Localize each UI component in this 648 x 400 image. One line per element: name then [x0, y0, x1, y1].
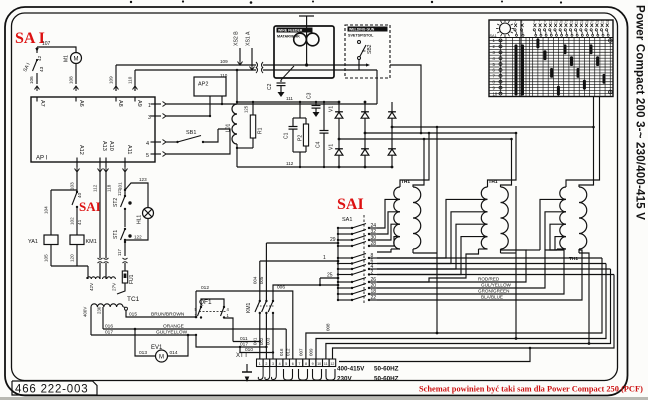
svg-text:102: 102 [70, 217, 75, 225]
svg-text:TH1: TH1 [569, 256, 578, 262]
motor M1 [71, 53, 82, 64]
svg-text:110: 110 [128, 76, 133, 84]
secondary drop TH2 [501, 252, 517, 254]
wire AP1 pin3 [166, 115, 210, 117]
wire 109 horizontal [116, 64, 256, 66]
wire 110 drop from A9 [134, 70, 136, 91]
svg-text:008: 008 [326, 323, 331, 331]
svg-text:YA1: YA1 [28, 239, 38, 245]
svg-text:50-60HZ: 50-60HZ [374, 376, 399, 383]
svg-text:R1: R1 [258, 127, 264, 134]
svg-text:230V: 230V [337, 376, 353, 383]
transformer TH1 no2 [481, 187, 487, 249]
tap wires TH3 [540, 199, 566, 250]
svg-text:C4: C4 [316, 141, 322, 148]
switch bank SA1 main [363, 215, 365, 303]
svg-text:016: 016 [105, 324, 113, 330]
svg-text:TC1: TC1 [127, 296, 140, 303]
svg-text:ST1: ST1 [113, 230, 119, 239]
svg-text:M: M [159, 355, 164, 361]
lamp HL1 [143, 208, 154, 219]
svg-text:001: 001 [253, 337, 258, 345]
wire 107 [37, 47, 76, 53]
svg-text:FU1: FU1 [129, 274, 135, 284]
return wire d [333, 275, 615, 360]
svg-text:50-60HZ: 50-60HZ [374, 366, 399, 373]
breaker QF1 [195, 291, 197, 317]
wire 113 down [105, 172, 107, 258]
wire ROD/RED [377, 250, 526, 282]
svg-text:230: 230 [97, 306, 102, 314]
svg-text:41: 41 [77, 219, 83, 225]
svg-text:17: 17 [565, 20, 569, 24]
gun return wire [376, 70, 378, 104]
svg-text:112: 112 [93, 184, 98, 192]
svg-text:5: 5 [146, 153, 149, 159]
secondary drop TH1 [413, 252, 437, 254]
svg-text:016: 016 [279, 348, 284, 356]
riser TH1 a [413, 139, 424, 187]
AP1 bottom pins [76, 162, 78, 167]
svg-text:014: 014 [170, 350, 178, 356]
svg-text:L01: L01 [226, 123, 232, 132]
svg-text:110: 110 [220, 73, 228, 78]
svg-text:SB1: SB1 [186, 130, 196, 136]
svg-text:29: 29 [596, 20, 600, 24]
svg-text:005: 005 [259, 276, 264, 284]
transformer TC1 primary [91, 304, 123, 307]
switch SB2 [358, 41, 361, 44]
svg-text:012: 012 [201, 285, 209, 291]
svg-text:25: 25 [585, 20, 589, 24]
svg-text:27: 27 [590, 20, 594, 24]
feed wire 29 [266, 242, 338, 244]
svg-text:006: 006 [277, 285, 285, 291]
svg-text:SAI: SAI [337, 196, 364, 213]
transformer TH1 no1 [394, 187, 400, 249]
svg-text:A11: A11 [126, 145, 132, 154]
wire 123 lamp top [125, 183, 146, 190]
svg-text:TH1: TH1 [401, 179, 410, 185]
switch SA1 aux [76, 191, 78, 193]
svg-text:KM1: KM1 [86, 239, 97, 245]
svg-text:HL1: HL1 [137, 215, 143, 224]
svg-text:6: 6 [292, 362, 294, 366]
svg-text:21: 21 [575, 20, 579, 24]
wire AP1 pin1 [166, 103, 222, 105]
svg-text:105: 105 [44, 254, 49, 262]
svg-text:V1: V1 [329, 144, 335, 150]
svg-text:10: 10 [493, 91, 498, 96]
wire 103 [76, 172, 78, 192]
control board AP1 [31, 97, 155, 162]
terminal 12 side wire [339, 348, 530, 362]
top edge specks [130, 1, 132, 3]
svg-text:3: 3 [272, 362, 274, 366]
gun wire to bus [390, 65, 421, 133]
welding gun box dashed [345, 25, 390, 78]
wire 016 ORANGE [103, 328, 286, 330]
fan motor EV1 [135, 329, 156, 356]
svg-text:Schemat powinien być taki sam: Schemat powinien być taki sam dla Power … [419, 385, 643, 394]
svg-text:109: 109 [220, 59, 228, 64]
svg-text:BLA/BLUE: BLA/BLUE [481, 295, 503, 300]
svg-text:13: 13 [554, 20, 558, 24]
svg-text:A13: A13 [101, 141, 107, 151]
wire GRON/GREEN [377, 250, 564, 294]
wire AP1 pin5 loop [166, 129, 230, 154]
jumper links [284, 369, 293, 380]
svg-text:11: 11 [324, 362, 328, 366]
svg-text:103: 103 [70, 182, 75, 190]
AP1 pin stubs [36, 97, 38, 102]
AP1 right pins [155, 103, 161, 105]
svg-text:31: 31 [601, 20, 605, 24]
tap wires TH2 [377, 199, 488, 258]
riser TH3 b [566, 97, 600, 188]
wire BLA/BLUE [377, 250, 582, 300]
return wire b [316, 264, 606, 360]
svg-text:SVETSPISTOL: SVETSPISTOL [348, 34, 374, 38]
svg-text:C2: C2 [267, 83, 273, 90]
svg-text:V1: V1 [329, 106, 335, 112]
svg-text:112: 112 [286, 161, 294, 166]
svg-text:015: 015 [129, 312, 137, 318]
svg-text:12: 12 [330, 362, 334, 366]
svg-text:29: 29 [330, 237, 336, 243]
svg-text:466 222-003: 466 222-003 [15, 384, 88, 396]
wire feeder box [274, 26, 334, 78]
svg-text:106: 106 [29, 76, 34, 84]
svg-text:1: 1 [148, 103, 151, 109]
return feeds top [377, 257, 602, 259]
svg-text:117: 117 [117, 249, 122, 256]
svg-text:121: 121 [117, 188, 122, 196]
svg-text:ST2: ST2 [113, 198, 119, 207]
svg-text:A8: A8 [117, 100, 123, 107]
contactor coil KM1 [70, 235, 84, 245]
svg-text:8: 8 [305, 362, 307, 366]
svg-text:007: 007 [299, 348, 304, 356]
svg-text:GUL/YELLOW: GUL/YELLOW [481, 283, 512, 288]
svg-text:WIRE FEEDER: WIRE FEEDER [278, 29, 303, 33]
svg-text:42V: 42V [89, 282, 94, 291]
svg-text:XS1 A: XS1 A [246, 31, 252, 46]
svg-text:108: 108 [69, 76, 74, 84]
wire 109 drop from A8 [115, 65, 117, 91]
svg-text:43: 43 [39, 66, 45, 72]
svg-text:2: 2 [371, 270, 374, 276]
svg-text:104: 104 [44, 206, 49, 214]
svg-text:EV1: EV1 [151, 345, 163, 351]
svg-text:SB2: SB2 [367, 44, 373, 54]
svg-text:10: 10 [317, 362, 321, 366]
resistor R1 [252, 102, 254, 115]
wire 011 [233, 341, 260, 343]
rectifier V1 rail 1 [338, 102, 340, 167]
riser TH3 a [579, 97, 594, 188]
bottom scan edge [0, 397, 648, 400]
wire 004 [259, 261, 261, 287]
svg-text:017: 017 [105, 330, 113, 336]
return wire c [326, 269, 611, 359]
svg-text:11: 11 [549, 20, 552, 24]
svg-text:XT I: XT I [236, 353, 247, 359]
capacitor C4 [323, 102, 325, 130]
svg-text:AP I: AP I [36, 156, 48, 162]
wire 017 lower [196, 335, 266, 347]
svg-text:22: 22 [371, 295, 377, 301]
bus phase 2 [365, 132, 516, 134]
svg-text:009: 009 [309, 348, 314, 356]
svg-text:C1: C1 [284, 132, 290, 139]
svg-text:SAI: SAI [79, 199, 101, 214]
svg-text:003: 003 [266, 337, 271, 345]
svg-text:111: 111 [286, 96, 293, 101]
svg-text:M1: M1 [64, 55, 70, 62]
bus phase 1 [392, 126, 594, 128]
svg-text:KM1: KM1 [246, 303, 252, 314]
svg-text:42: 42 [37, 55, 43, 61]
svg-text:109: 109 [109, 76, 114, 84]
svg-text:1: 1 [323, 255, 326, 261]
svg-text:33: 33 [606, 20, 610, 24]
selector table [489, 20, 613, 97]
svg-text:011: 011 [240, 336, 248, 342]
svg-text:ORANGE: ORANGE [163, 324, 184, 330]
feed wire 1 [260, 260, 338, 262]
svg-text:GUL/YELLOW: GUL/YELLOW [156, 330, 188, 336]
svg-text:4: 4 [146, 141, 149, 147]
wire AP2 drop a [221, 96, 223, 104]
svg-text:118: 118 [107, 184, 112, 192]
doc number box [12, 381, 97, 395]
svg-text:XS2 B: XS2 B [234, 31, 240, 46]
svg-text:23: 23 [580, 20, 584, 24]
connector pins mid [98, 258, 103, 259]
coil bottom rail [51, 265, 88, 267]
svg-text:MATARVERK: MATARVERK [277, 35, 300, 39]
capacitor C3 [315, 102, 317, 105]
svg-text:5: 5 [285, 362, 287, 366]
svg-text:3: 3 [148, 115, 151, 121]
svg-text:GRON/GREEN: GRON/GREEN [478, 289, 509, 294]
svg-text:400V: 400V [83, 307, 88, 317]
svg-text:BRUN/BROWN: BRUN/BROWN [151, 312, 185, 318]
svg-text:7: 7 [298, 362, 300, 366]
svg-text:122: 122 [134, 235, 142, 240]
svg-text:P2: P2 [298, 135, 304, 141]
wire 101 [124, 172, 126, 190]
tap wires TH1 [377, 199, 400, 228]
wire 111 bus [237, 101, 339, 103]
wire 005 [265, 243, 267, 287]
svg-text:27V: 27V [112, 282, 117, 291]
svg-text:101: 101 [118, 182, 123, 190]
svg-text:A10: A10 [108, 141, 114, 151]
svg-text:SA I: SA I [15, 30, 45, 47]
secondary drop TH3 [579, 253, 589, 344]
riser TH2 a [501, 139, 512, 187]
svg-text:400-415V: 400-415V [337, 366, 365, 373]
inductor L01 [236, 70, 238, 104]
svg-text:40: 40 [77, 192, 83, 198]
riser TH1 b [400, 133, 429, 187]
svg-text:123: 123 [139, 177, 147, 182]
svg-text:A9: A9 [136, 100, 142, 107]
svg-text:WELDING GUN: WELDING GUN [349, 28, 375, 32]
svg-text:013: 013 [139, 350, 147, 356]
svg-text:19: 19 [570, 20, 574, 24]
relay YA1 [76, 190, 78, 192]
svg-text:120: 120 [70, 254, 75, 262]
svg-text:TH1: TH1 [489, 179, 498, 185]
svg-text:AP2: AP2 [198, 82, 208, 88]
svg-text:107: 107 [42, 41, 51, 47]
wire 010 [240, 347, 273, 353]
wire AP2 drop b [209, 96, 211, 116]
svg-text:A6: A6 [78, 100, 84, 107]
return wire a [306, 258, 602, 359]
transformer TH1 no3 [560, 187, 566, 249]
switch SA1 pole a [36, 47, 38, 53]
wire 006 [273, 285, 274, 287]
rectifier V1 rail 3 [391, 102, 393, 167]
svg-text:A7: A7 [39, 100, 45, 107]
mains input hooks [258, 367, 263, 380]
wire GUL/YELLOW [377, 250, 557, 288]
svg-text:2: 2 [265, 362, 267, 366]
riser TH2 b [488, 133, 517, 187]
rectifier V1 rail 2 [364, 102, 366, 167]
capacitor C2 [281, 66, 294, 80]
svg-text:9: 9 [312, 362, 314, 366]
svg-text:A12: A12 [78, 145, 84, 155]
svg-text:Power Compact 200 3-~ 230/400-: Power Compact 200 3-~ 230/400-415 V [634, 5, 646, 220]
wire 017 GUL/YELLOW [91, 334, 196, 336]
wire 110 horizontal [135, 69, 256, 71]
svg-text:4: 4 [279, 362, 281, 366]
wire 112 down [99, 172, 101, 258]
svg-text:002: 002 [259, 337, 264, 345]
feed wire 25 [320, 277, 338, 279]
board AP2 [194, 77, 226, 96]
wire 016 into XT1 [285, 329, 287, 359]
wire 012 run [196, 291, 293, 359]
AP1 top pin connectors [35, 86, 40, 90]
svg-text:004: 004 [253, 276, 258, 284]
svg-text:SA1: SA1 [342, 217, 352, 223]
bus phase 3 [339, 138, 512, 140]
svg-text:25: 25 [327, 273, 333, 279]
svg-text:28: 28 [371, 241, 377, 247]
svg-text:ROD/RED: ROD/RED [478, 277, 500, 282]
svg-text:125: 125 [244, 105, 249, 113]
fuse FU1 [124, 263, 126, 271]
svg-text:15: 15 [559, 20, 563, 24]
wire 112 bus [237, 166, 392, 168]
transformer TC1 42V 27V windings [99, 263, 101, 276]
svg-text:M: M [74, 57, 79, 63]
svg-text:1: 1 [259, 362, 261, 366]
capacitor C1 pot P2 network [299, 102, 301, 118]
feed wire 006 [274, 284, 338, 286]
svg-text:017: 017 [240, 342, 248, 348]
svg-text:C3: C3 [307, 92, 313, 99]
